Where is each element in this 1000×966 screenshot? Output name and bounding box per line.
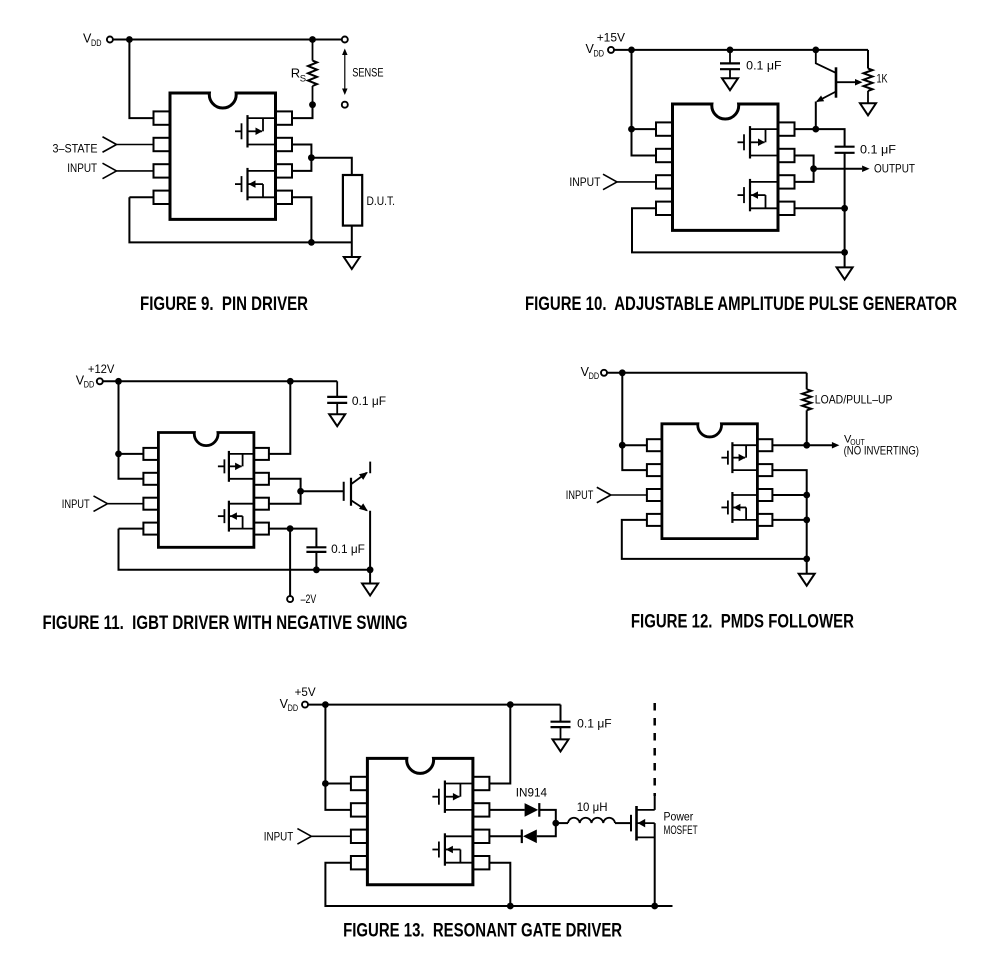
svg-text:FIGURE 11. IGBT DRIVER WITH N: FIGURE 11. IGBT DRIVER WITH NEGATIVE SWI… — [43, 613, 408, 634]
svg-text:0.1 μF: 0.1 μF — [352, 394, 386, 408]
svg-text:10 μH: 10 μH — [577, 800, 608, 814]
svg-text:R: R — [291, 66, 300, 81]
svg-text:+12V: +12V — [88, 362, 115, 376]
svg-text:INPUT: INPUT — [62, 497, 90, 511]
svg-text:FIGURE 12. PMDS FOLLOWER: FIGURE 12. PMDS FOLLOWER — [631, 612, 854, 633]
svg-text:FIGURE 13. RESONANT GATE DRIV: FIGURE 13. RESONANT GATE DRIVER — [343, 921, 622, 942]
svg-text:MOSFET: MOSFET — [664, 823, 699, 837]
svg-text:FIGURE 9. PIN DRIVER: FIGURE 9. PIN DRIVER — [140, 294, 308, 315]
svg-text:S: S — [300, 74, 306, 85]
svg-text:DD: DD — [589, 371, 600, 381]
svg-text:Power: Power — [664, 809, 694, 823]
svg-text:(NO INVERTING): (NO INVERTING) — [844, 443, 919, 457]
svg-text:DD: DD — [594, 48, 605, 58]
svg-text:INPUT: INPUT — [569, 175, 601, 189]
svg-text:0.1 μF: 0.1 μF — [860, 143, 896, 157]
svg-text:LOAD/PULL–UP: LOAD/PULL–UP — [815, 393, 893, 407]
svg-text:INPUT: INPUT — [264, 829, 294, 843]
svg-text:0.1 μF: 0.1 μF — [331, 542, 365, 556]
svg-text:SENSE: SENSE — [352, 65, 383, 79]
svg-text:DD: DD — [84, 380, 95, 390]
svg-text:0.1 μF: 0.1 μF — [746, 59, 781, 73]
svg-text:–2V: –2V — [301, 592, 317, 606]
svg-text:D.U.T.: D.U.T. — [367, 194, 396, 208]
svg-text:+15V: +15V — [597, 31, 625, 45]
svg-text:FIGURE 10. ADJUSTABLE AMPLITU: FIGURE 10. ADJUSTABLE AMPLITUDE PULSE GE… — [525, 294, 957, 315]
svg-text:+5V: +5V — [295, 685, 316, 699]
svg-text:1K: 1K — [877, 72, 888, 86]
svg-text:OUTPUT: OUTPUT — [874, 162, 916, 176]
svg-text:0.1 μF: 0.1 μF — [577, 717, 612, 731]
svg-text:INPUT: INPUT — [67, 161, 97, 175]
svg-text:DD: DD — [288, 703, 299, 713]
svg-text:DD: DD — [91, 38, 102, 48]
svg-text:3–STATE: 3–STATE — [53, 141, 98, 155]
svg-text:IN914: IN914 — [516, 785, 548, 799]
svg-text:INPUT: INPUT — [566, 488, 594, 502]
